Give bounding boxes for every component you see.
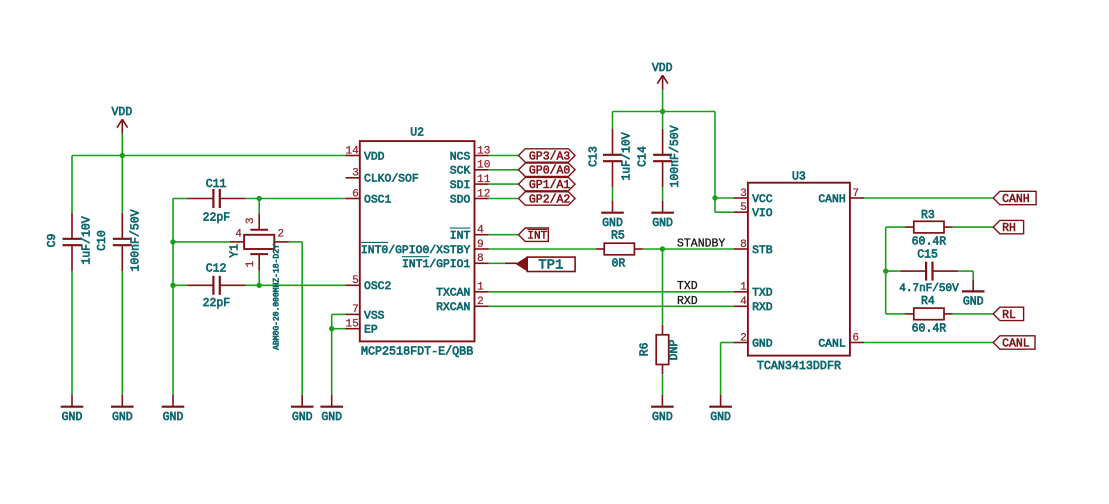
svg-text:TCAN3413DDFR: TCAN3413DDFR [757,359,841,373]
svg-text:VDD: VDD [364,151,385,163]
svg-text:C14: C14 [637,146,650,167]
svg-text:VCC: VCC [752,194,773,206]
svg-text:1: 1 [245,260,257,267]
svg-text:60.4R: 60.4R [912,323,947,336]
svg-text:RL: RL [1002,309,1016,322]
svg-text:7: 7 [852,188,859,200]
svg-text:VIO: VIO [752,208,773,220]
svg-text:GND: GND [710,411,731,424]
svg-text:TXCAN: TXCAN [436,288,470,300]
svg-text:STB: STB [752,245,773,257]
svg-text:14: 14 [345,145,359,157]
svg-text:GND: GND [652,217,673,230]
svg-text:1: 1 [477,282,484,294]
svg-text:10: 10 [477,160,491,172]
svg-text:VDD: VDD [112,106,133,119]
svg-text:9: 9 [477,239,484,251]
svg-text:8: 8 [740,239,747,251]
svg-text:CANL: CANL [1002,337,1030,350]
svg-text:6: 6 [352,188,359,200]
svg-text:C12: C12 [206,262,227,275]
svg-text:1uF/10V: 1uF/10V [621,132,634,180]
svg-text:NCS: NCS [450,151,471,163]
svg-text:15: 15 [345,319,358,331]
svg-text:TP1: TP1 [538,257,563,273]
svg-text:R3: R3 [921,209,935,222]
svg-text:C10: C10 [96,230,109,251]
svg-text:3: 3 [740,188,747,200]
svg-text:INT1/GPIO1: INT1/GPIO1 [402,259,471,271]
svg-text:CANH: CANH [818,194,845,206]
svg-text:CANL: CANL [818,338,846,350]
svg-text:2: 2 [277,229,284,241]
svg-text:100nF/50V: 100nF/50V [129,209,142,271]
svg-text:22pF: 22pF [203,211,231,224]
svg-text:R6: R6 [639,342,652,356]
svg-text:TXD: TXD [677,280,698,293]
svg-text:U2: U2 [410,126,424,139]
svg-text:Y1: Y1 [229,244,242,258]
svg-text:60.4R: 60.4R [912,236,947,249]
svg-text:RXD: RXD [752,302,773,314]
svg-text:DNP: DNP [668,340,681,361]
svg-text:5: 5 [740,202,747,214]
svg-text:100nF/50V: 100nF/50V [669,125,682,187]
svg-text:INT: INT [527,231,547,243]
svg-text:5: 5 [352,275,359,287]
svg-text:11: 11 [477,174,491,186]
svg-text:1uF/10V: 1uF/10V [80,216,93,264]
svg-text:ABM8G-20.000MHZ-18-D2Y: ABM8G-20.000MHZ-18-D2Y [273,244,282,350]
svg-text:GND: GND [292,411,313,424]
svg-text:8: 8 [477,253,484,265]
svg-text:VSS: VSS [364,310,385,322]
svg-text:22pF: 22pF [203,297,231,310]
svg-text:4: 4 [740,296,747,308]
svg-text:GND: GND [963,296,984,309]
svg-text:C11: C11 [206,178,227,191]
svg-text:R4: R4 [921,295,935,308]
svg-text:U3: U3 [792,171,806,184]
svg-text:VDD: VDD [652,62,673,75]
svg-text:3: 3 [245,217,257,224]
svg-text:3: 3 [352,168,359,180]
svg-text:GND: GND [321,411,342,424]
svg-text:GP3/A3: GP3/A3 [529,150,571,163]
svg-text:GP0/A0: GP0/A0 [529,165,571,178]
svg-text:OSC1: OSC1 [364,194,392,206]
svg-text:12: 12 [477,188,490,200]
svg-text:RXD: RXD [677,295,698,308]
svg-text:GND: GND [62,411,83,424]
svg-text:R5: R5 [611,229,625,242]
svg-text:2: 2 [740,332,747,344]
svg-text:GP2/A2: GP2/A2 [529,193,571,206]
svg-text:C13: C13 [588,146,601,167]
svg-text:SDI: SDI [450,180,471,192]
svg-text:GP1/A1: GP1/A1 [529,179,571,192]
svg-text:CANH: CANH [1002,193,1030,206]
svg-text:4: 4 [477,225,484,237]
svg-text:INT0/GPIO0/XSTBY: INT0/GPIO0/XSTBY [361,245,471,257]
svg-text:4: 4 [235,229,242,241]
svg-text:7: 7 [352,304,359,316]
svg-text:GND: GND [112,411,133,424]
svg-text:GND: GND [163,411,184,424]
svg-text:GND: GND [752,338,773,350]
svg-text:6: 6 [852,332,859,344]
svg-text:0R: 0R [612,258,626,271]
svg-text:TXD: TXD [752,288,773,300]
svg-text:4.7nF/50V: 4.7nF/50V [899,283,959,295]
svg-text:OSC2: OSC2 [364,281,392,293]
svg-text:RXCAN: RXCAN [436,302,470,314]
svg-text:MCP2518FDT-E/QBB: MCP2518FDT-E/QBB [361,344,473,358]
svg-text:GND: GND [602,217,623,230]
svg-text:SCK: SCK [450,166,471,178]
svg-text:2: 2 [477,296,484,308]
svg-text:13: 13 [477,145,490,157]
svg-text:1: 1 [740,282,747,294]
svg-text:C15: C15 [917,249,938,262]
svg-text:GND: GND [652,411,673,424]
svg-text:STANDBY: STANDBY [677,238,725,251]
svg-text:SDO: SDO [450,194,471,206]
svg-text:CLKO/SOF: CLKO/SOF [364,174,419,186]
svg-text:RH: RH [1002,222,1016,235]
svg-text:INT: INT [450,231,471,243]
svg-text:EP: EP [364,325,378,337]
svg-text:C9: C9 [46,234,59,248]
